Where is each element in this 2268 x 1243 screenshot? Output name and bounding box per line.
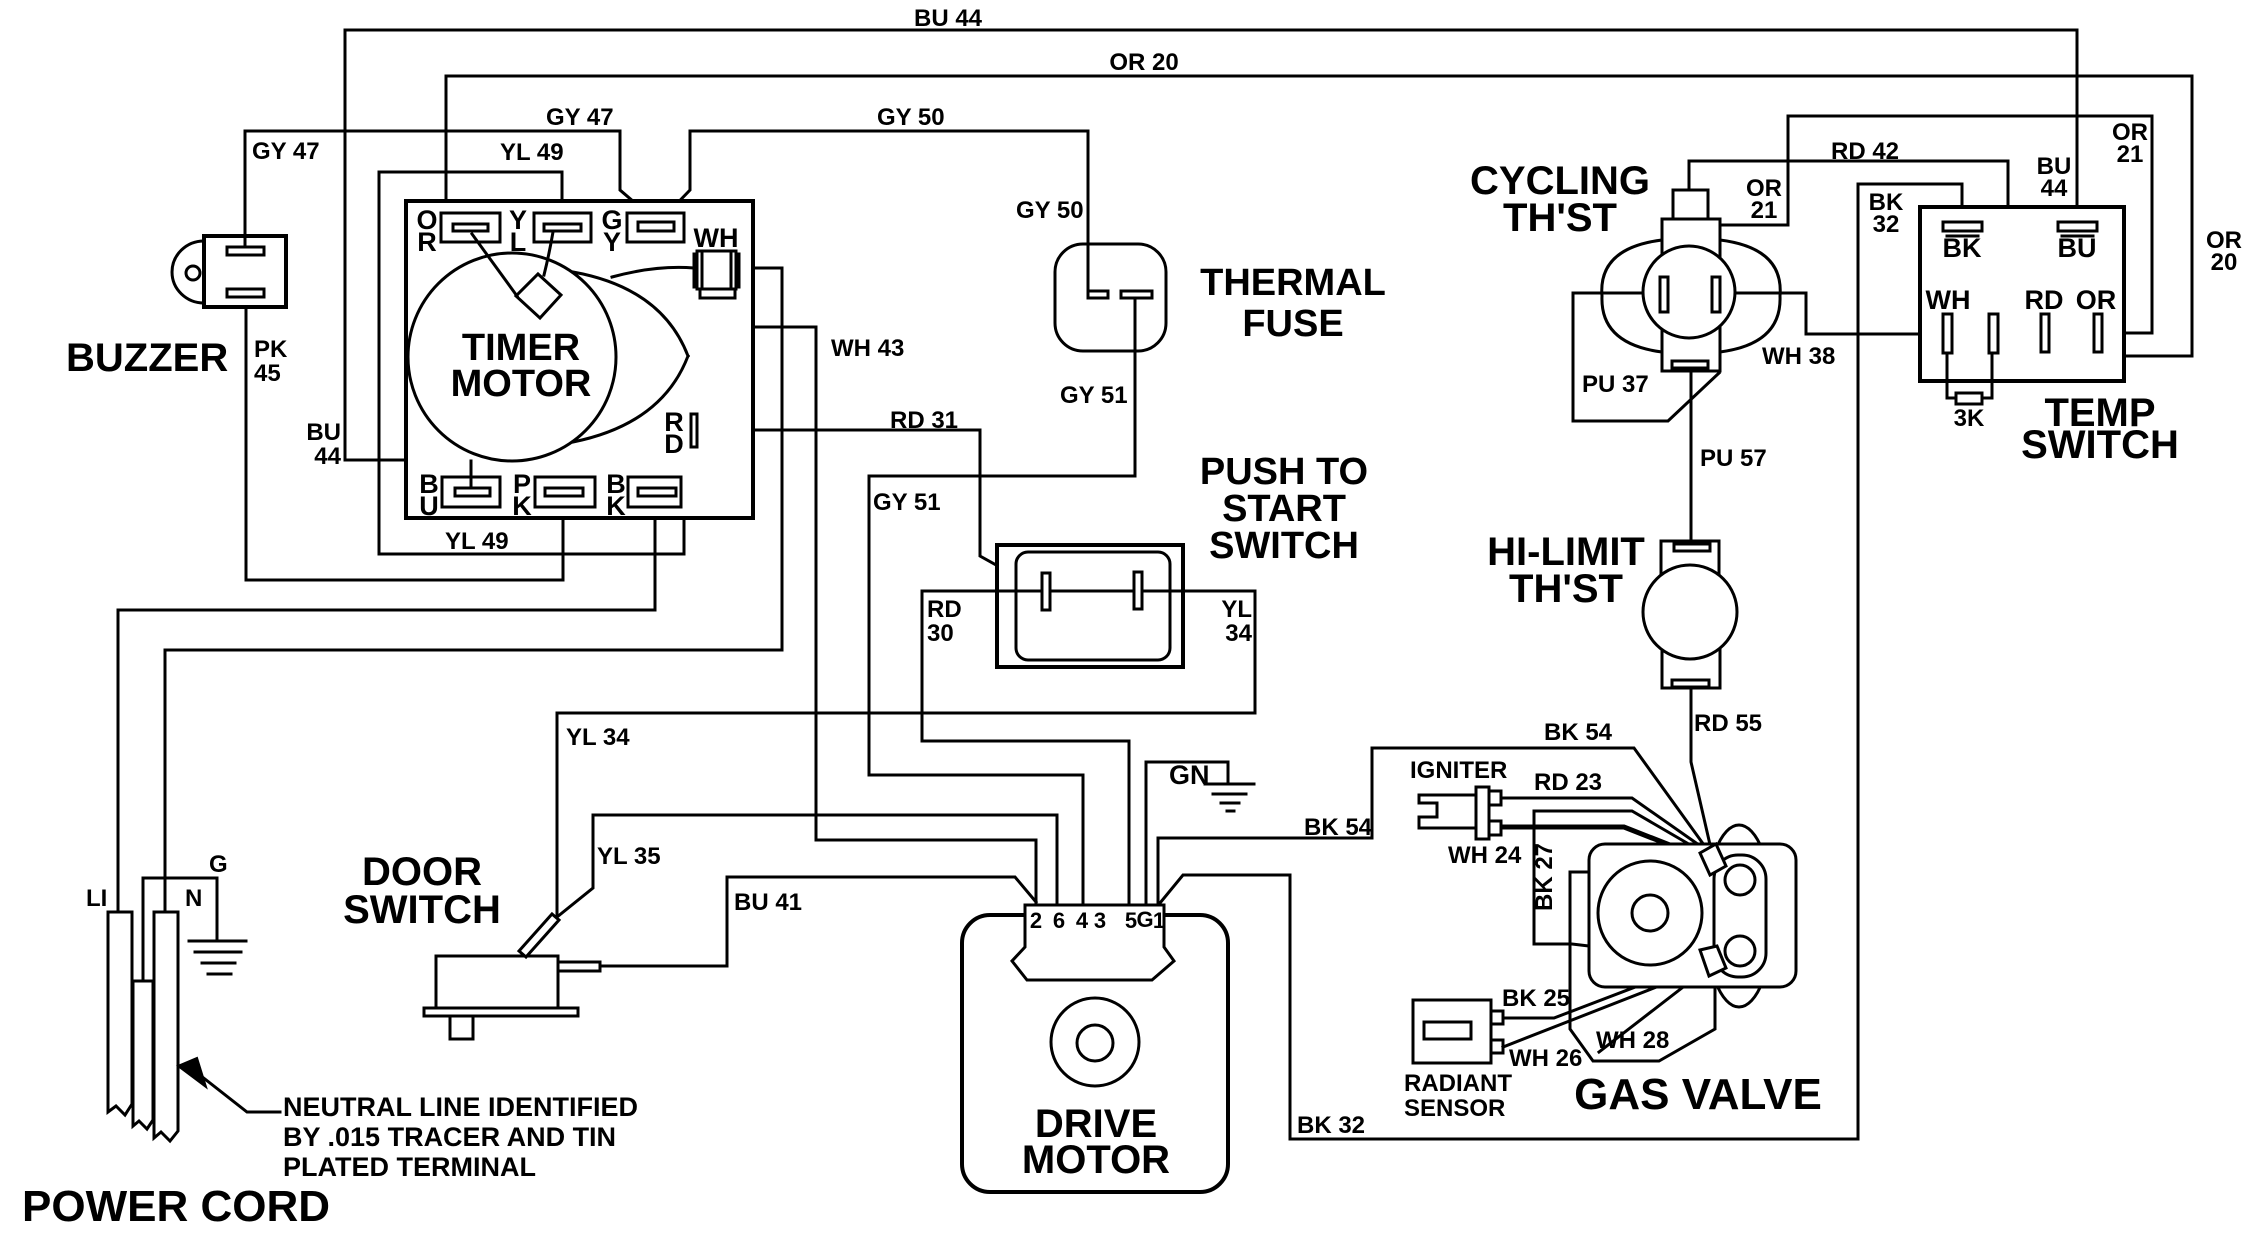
svg-text:GY 47: GY 47 xyxy=(546,104,614,131)
svg-text:Y: Y xyxy=(603,227,621,257)
timer OR slot xyxy=(441,213,500,242)
wire BK 32 (drive motor to temp switch BK terminal) xyxy=(1160,184,1962,1139)
igniter xyxy=(1419,787,1501,839)
svg-text:WH 43: WH 43 xyxy=(831,335,904,362)
wire BU 41 (door switch to drive motor pin 2) xyxy=(600,877,1036,966)
svg-text:SWITCH: SWITCH xyxy=(1209,525,1359,567)
drive motor xyxy=(962,905,1228,1192)
svg-text:GAS VALVE: GAS VALVE xyxy=(1574,1070,1822,1119)
timer GY slot xyxy=(627,213,684,242)
svg-text:RD 55: RD 55 xyxy=(1694,710,1762,737)
svg-text:RD 23: RD 23 xyxy=(1534,769,1602,796)
svg-text:SENSOR: SENSOR xyxy=(1404,1095,1505,1122)
timer motor circle xyxy=(408,253,616,461)
svg-text:MOTOR: MOTOR xyxy=(451,363,592,405)
svg-text:BY .015 TRACER AND TIN: BY .015 TRACER AND TIN xyxy=(283,1122,616,1152)
timer belt xyxy=(573,272,688,442)
svg-text:20: 20 xyxy=(2211,249,2238,276)
svg-text:RD: RD xyxy=(927,596,962,623)
wire RD 55 (hi-limit to gas valve) xyxy=(1691,689,1711,849)
svg-text:32: 32 xyxy=(1873,211,1900,238)
svg-text:21: 21 xyxy=(1751,197,1778,224)
svg-text:SWITCH: SWITCH xyxy=(2021,423,2179,467)
timer RD contact xyxy=(691,414,697,447)
temp switch OR contact xyxy=(2094,314,2102,352)
svg-text:BU 44: BU 44 xyxy=(914,5,983,32)
svg-text:GY 50: GY 50 xyxy=(1016,197,1084,224)
svg-text:BK 25: BK 25 xyxy=(1502,985,1570,1012)
svg-text:RD 42: RD 42 xyxy=(1831,138,1899,165)
svg-text:BUZZER: BUZZER xyxy=(66,336,228,380)
wire BK 27 (gas valve loop) xyxy=(1534,811,1711,959)
push-to-start switch xyxy=(922,545,1255,667)
gas valve top spade terminal xyxy=(1700,844,1726,875)
wire GY 47 (buzzer to timer GY slot) xyxy=(245,131,655,245)
svg-text:K: K xyxy=(606,491,626,521)
temp switch RD contact xyxy=(2041,314,2049,352)
thermal fuse xyxy=(1055,244,1166,351)
arrow neutral line xyxy=(178,1058,206,1087)
svg-text:U: U xyxy=(419,491,439,521)
svg-text:3: 3 xyxy=(1094,908,1106,933)
svg-text:START: START xyxy=(1222,488,1346,530)
svg-text:GY 47: GY 47 xyxy=(252,138,320,165)
svg-text:RD 31: RD 31 xyxy=(890,407,958,434)
temp switch BU terminal xyxy=(2058,222,2097,231)
svg-text:LI: LI xyxy=(86,885,107,912)
temp switch xyxy=(1920,207,2124,432)
wire RD 42 (cycling thermostat to temp switch RD terminal) xyxy=(1689,161,2039,333)
svg-text:K: K xyxy=(512,491,532,521)
timer motor assembly xyxy=(406,201,753,521)
svg-text:TH'ST: TH'ST xyxy=(1509,567,1623,611)
wire WH 38 (cycling thermostat to temp switch WH terminal) xyxy=(1722,293,1941,334)
resistor 3K xyxy=(1947,353,1992,398)
svg-text:OR: OR xyxy=(2076,285,2117,315)
svg-text:R: R xyxy=(417,227,437,257)
svg-text:OR 20: OR 20 xyxy=(1109,49,1178,76)
svg-text:TH'ST: TH'ST xyxy=(1503,196,1617,240)
svg-text:PUSH TO: PUSH TO xyxy=(1200,451,1368,493)
wire GY 50 (timer GY slot to thermal fuse) xyxy=(661,131,1088,290)
svg-text:THERMAL: THERMAL xyxy=(1200,262,1386,304)
svg-text:POWER CORD: POWER CORD xyxy=(22,1182,330,1231)
gas valve bottom spade terminal xyxy=(1700,946,1726,976)
svg-text:BK 54: BK 54 xyxy=(1304,814,1373,841)
svg-text:5: 5 xyxy=(1125,908,1137,933)
timer BU slot xyxy=(442,477,500,507)
svg-text:SWITCH: SWITCH xyxy=(343,888,501,932)
drive motor pulley xyxy=(1051,998,1139,1086)
svg-text:BK 27: BK 27 xyxy=(1531,843,1558,911)
wire RD 30 (push-to-start to drive motor pin 5) xyxy=(922,591,1129,906)
svg-text:GN: GN xyxy=(1169,760,1210,790)
wire OR slot to diamond xyxy=(472,234,517,296)
wire RD 31 (timer RD contact to push-to-start switch) xyxy=(699,430,1041,590)
wire BU 44 (net from timer BU slot to temp switch BU terminal) xyxy=(345,30,2077,490)
svg-text:YL 34: YL 34 xyxy=(566,724,630,751)
wire PK 45 (timer PK slot to buzzer) xyxy=(246,308,563,580)
svg-text:RD: RD xyxy=(2025,285,2064,315)
wire WH 28 (gas valve) xyxy=(1599,974,1700,1052)
svg-text:BK 32: BK 32 xyxy=(1297,1112,1365,1139)
wire GN (drive motor ground pin) xyxy=(1146,762,1228,906)
timer WH box xyxy=(697,251,736,289)
wire PU 37 (cycling thermostat callout) xyxy=(1573,293,1719,421)
wire WH 43 (timer WH box to drive motor pin 2) xyxy=(719,299,1036,906)
svg-text:YL 49: YL 49 xyxy=(500,139,564,166)
svg-text:34: 34 xyxy=(1225,620,1252,647)
power cord xyxy=(108,878,246,1141)
ground symbol (drive motor GN) xyxy=(1205,784,1254,811)
timer cam diamond xyxy=(516,274,561,318)
svg-text:WH: WH xyxy=(1926,285,1971,315)
wire WH 26 (radiant sensor to gas valve) xyxy=(1503,968,1705,1047)
svg-text:WH 38: WH 38 xyxy=(1762,343,1835,370)
svg-text:BU: BU xyxy=(2058,233,2097,263)
wire GY 51 (thermal fuse to drive motor pin 4) xyxy=(869,299,1135,906)
svg-text:FUSE: FUSE xyxy=(1242,303,1343,345)
svg-text:44: 44 xyxy=(2041,175,2068,202)
svg-text:YL 49: YL 49 xyxy=(445,528,509,555)
svg-text:3K: 3K xyxy=(1954,405,1985,432)
timer BK slot xyxy=(628,477,681,507)
svg-text:PLATED TERMINAL: PLATED TERMINAL xyxy=(283,1152,536,1182)
svg-text:IGNITER: IGNITER xyxy=(1410,757,1507,784)
svg-text:WH 26: WH 26 xyxy=(1509,1045,1582,1072)
svg-text:30: 30 xyxy=(927,620,954,647)
wire RD 23 (igniter to gas valve) xyxy=(1502,798,1709,852)
wire BK (timer BK slot to power cord LI) xyxy=(118,497,655,910)
hi-limit thermostat xyxy=(1643,541,1737,688)
svg-text:NEUTRAL LINE IDENTIFIED: NEUTRAL LINE IDENTIFIED xyxy=(283,1092,638,1122)
wire BK 25 (radiant sensor to gas valve) xyxy=(1503,962,1701,1018)
wire WH 24 (igniter to gas valve, heavy) xyxy=(1502,827,1713,862)
svg-text:44: 44 xyxy=(314,443,341,470)
svg-text:PK: PK xyxy=(254,336,288,363)
svg-text:1: 1 xyxy=(1153,908,1165,933)
buzzer xyxy=(172,236,286,307)
svg-text:PU 37: PU 37 xyxy=(1582,371,1649,398)
svg-text:GY 50: GY 50 xyxy=(877,104,945,131)
wire WH neutral (timer WH box to power cord N) xyxy=(165,268,782,910)
svg-text:PU 57: PU 57 xyxy=(1700,445,1767,472)
temp switch middle contact xyxy=(1989,314,1998,353)
svg-text:BU: BU xyxy=(306,419,341,446)
wire OR 21 (cycling thermostat to temp switch OR terminal) xyxy=(1722,116,2152,333)
timer Y slot xyxy=(534,213,591,242)
svg-text:4: 4 xyxy=(1076,908,1089,933)
svg-text:YL 35: YL 35 xyxy=(597,843,661,870)
svg-text:YL: YL xyxy=(1221,596,1252,623)
svg-text:GY 51: GY 51 xyxy=(873,489,941,516)
svg-text:WH 28: WH 28 xyxy=(1596,1027,1669,1054)
wire OR 20 (net from timer OR slot to temp switch OR terminal) xyxy=(446,76,2192,356)
cycling thermostat xyxy=(1602,190,1780,371)
wire YL 35 (door switch arm to drive motor pin 6) xyxy=(557,815,1057,917)
svg-text:BK: BK xyxy=(1943,233,1982,263)
svg-text:N: N xyxy=(185,885,202,912)
wire Y slot to diamond xyxy=(544,232,553,275)
svg-text:G: G xyxy=(209,851,228,878)
svg-text:BU 41: BU 41 xyxy=(734,889,802,916)
wire BK 54 (drive motor pin 1 to gas valve) xyxy=(1158,748,1704,906)
door switch xyxy=(424,914,600,1039)
svg-text:RADIANT: RADIANT xyxy=(1404,1070,1512,1097)
svg-text:45: 45 xyxy=(254,360,281,387)
svg-text:G: G xyxy=(1136,907,1153,932)
wire YL 34 (push-to-start to door switch) xyxy=(557,591,1255,917)
wire timer circle to WH box xyxy=(612,267,694,277)
svg-text:WH 24: WH 24 xyxy=(1448,842,1522,869)
gas valve xyxy=(1570,825,1796,1061)
temp switch WH contact xyxy=(1943,314,1952,353)
radiant sensor xyxy=(1413,1000,1503,1063)
svg-text:D: D xyxy=(664,429,684,459)
svg-text:BK 54: BK 54 xyxy=(1544,719,1613,746)
svg-text:WH: WH xyxy=(694,223,739,253)
svg-text:6: 6 xyxy=(1053,908,1065,933)
wire into BU slot xyxy=(470,461,473,488)
svg-text:21: 21 xyxy=(2117,141,2144,168)
timer PK slot xyxy=(535,477,595,507)
wire PU 57 (cycling to hi-limit thermostat) xyxy=(1690,372,1693,540)
wire YL 49 (timer Y slot loop) xyxy=(379,172,684,554)
svg-text:GY 51: GY 51 xyxy=(1060,382,1128,409)
svg-text:MOTOR: MOTOR xyxy=(1022,1138,1170,1182)
svg-text:2: 2 xyxy=(1030,908,1042,933)
temp switch BK terminal xyxy=(1943,222,1982,231)
